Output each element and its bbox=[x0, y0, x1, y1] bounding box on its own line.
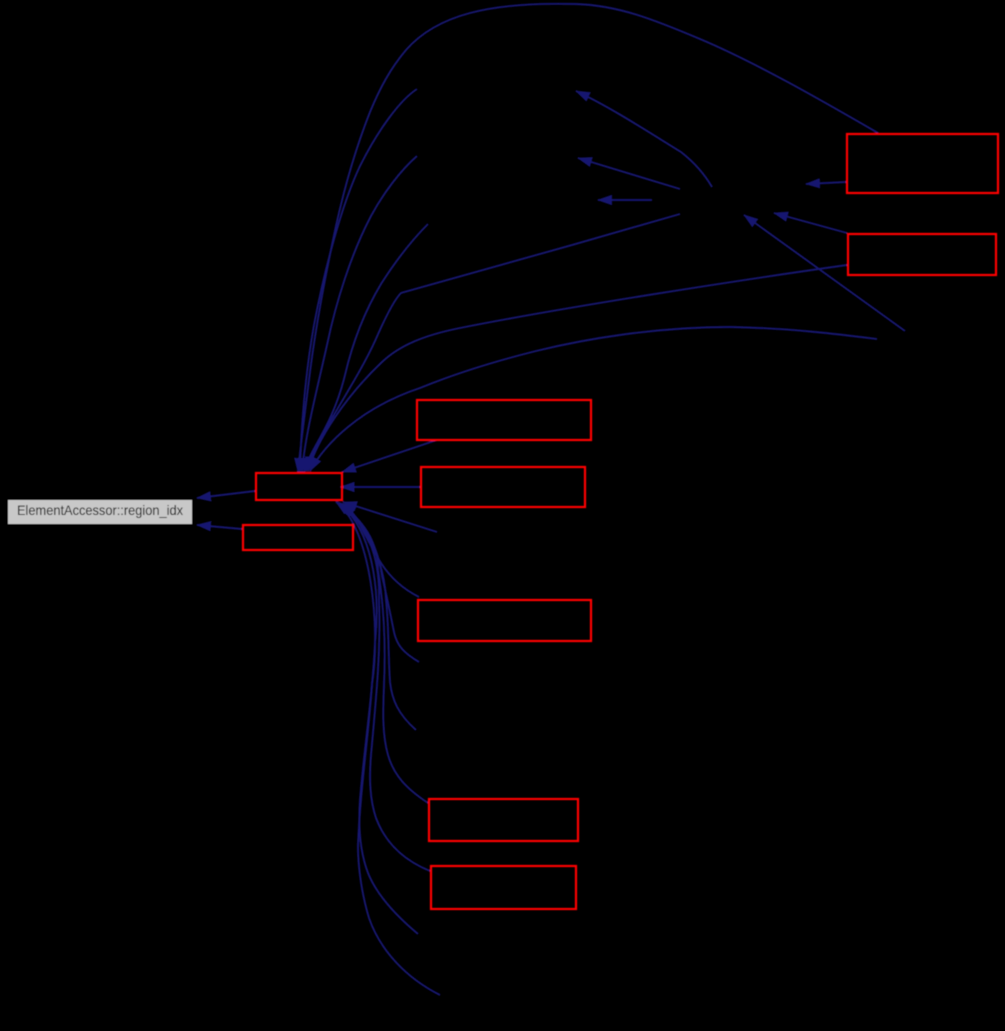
edge a1: from invisible node (712,187) to invisible node (577,92) bbox=[576, 91, 712, 187]
node B5 (truncated caller) bbox=[431, 866, 576, 909]
edge L4: from node B4 left edge to central node bottom-right bbox=[339, 503, 428, 803]
edge L5: from node B5 left edge to central node bottom-right bbox=[338, 503, 430, 871]
edge D: from invisible node (428,224) to central node bbox=[304, 224, 428, 472]
node C2 below central bbox=[243, 525, 353, 550]
edge a8: node C2 to gray node bbox=[197, 525, 242, 529]
central red node bbox=[256, 473, 342, 500]
edge L3: from invisible node (419,662) to central node bottom-right bbox=[341, 505, 419, 662]
node B3 (truncated caller) bbox=[418, 600, 591, 641]
edge L3b: from invisible node (416,730) to central node bottom-right bbox=[340, 504, 416, 730]
edge L1: from invisible node (437,532) to central node bottom-right bbox=[343, 502, 437, 532]
edge a6: from invisible node (905,331) to invisible node (751,218) bbox=[744, 215, 905, 331]
edge a7: central node to gray node bbox=[197, 491, 255, 498]
edge a3: from invisible node (652,200) to invisible node (595,200) bbox=[598, 199, 652, 201]
node B7 (truncated caller) bbox=[848, 234, 996, 275]
svg-text:ElementAccessor::region_idx: ElementAccessor::region_idx bbox=[17, 503, 183, 518]
edge a10: from node B1 bottom to central node top-right corner bbox=[342, 440, 437, 472]
edge a5: from node B7 left edge to invisible node (775,213) bbox=[774, 213, 847, 233]
gray node ElementAccessor::region_idx bbox=[8, 500, 193, 525]
edge F: from node B7 left edge to central node bbox=[308, 265, 847, 471]
node B1 (truncated caller) bbox=[417, 400, 591, 440]
edge L6: from invisible node (418,934) to central node bottom-right bbox=[337, 502, 418, 934]
edge C: from invisible node (417,156) to central node bbox=[302, 156, 417, 472]
node B2 (truncated caller) bbox=[421, 467, 585, 507]
edge a11: from node B2 left edge to central node right edge bbox=[341, 486, 421, 488]
edge a4: from node B6 left edge to invisible node (803,185) bbox=[806, 182, 846, 184]
edge A: from node B6 top to central node bbox=[298, 4, 878, 472]
node B6 (truncated caller, two lines) bbox=[847, 134, 998, 193]
edge E: from invisible node (680,214) to central node bbox=[306, 214, 680, 471]
edge L7: from invisible node (440,995) to central node bottom-right bbox=[336, 502, 440, 995]
edge G: from invisible node (877,339) to central node bbox=[310, 327, 877, 471]
edge a2: from invisible node (680,189) to invisible node (577,158) bbox=[578, 158, 680, 189]
node B4 (truncated caller) bbox=[429, 799, 578, 841]
edge L2: from node B3 top-left to central node bottom-right bbox=[342, 504, 419, 597]
edge B: from invisible node (417,89) to central node bbox=[300, 89, 417, 472]
